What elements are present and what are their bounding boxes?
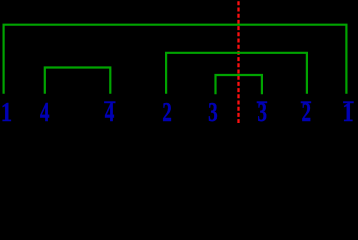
endpoint label 2bar overline (301, 101, 312, 103)
cup (2,2bar) (166, 53, 307, 94)
svg-text:1: 1 (342, 97, 353, 123)
svg-text:4: 4 (40, 98, 50, 123)
cup (3,3bar) (216, 75, 262, 94)
svg-text:4: 4 (105, 98, 115, 123)
svg-text:3: 3 (208, 98, 218, 123)
endpoint label 3bar overline (257, 101, 268, 103)
cup (1,1bar) (4, 25, 347, 94)
endpoint label 1bar overline (343, 101, 354, 103)
symmetry axis (red dashed wall) (237, 1, 239, 123)
svg-text:2: 2 (301, 98, 311, 123)
endpoint label 4bar overline (104, 101, 115, 103)
cup (4,4bar) (45, 68, 111, 94)
svg-text:1: 1 (1, 97, 12, 123)
svg-text:2: 2 (162, 98, 172, 123)
svg-text:3: 3 (257, 98, 267, 123)
